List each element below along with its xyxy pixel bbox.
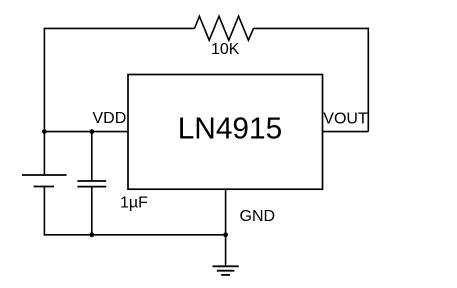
capacitor 1uF xyxy=(77,181,106,187)
svg-text:VOUT: VOUT xyxy=(323,110,368,127)
wire xyxy=(91,187,93,235)
wire xyxy=(225,189,227,266)
wire xyxy=(44,131,128,133)
wire xyxy=(43,28,45,175)
junction xyxy=(89,232,94,237)
svg-text:10K: 10K xyxy=(211,41,240,58)
svg-text:LN4915: LN4915 xyxy=(178,111,283,146)
wire xyxy=(91,132,93,181)
junction xyxy=(42,129,47,134)
resistor 10K xyxy=(195,16,254,40)
junction xyxy=(89,129,94,134)
wire xyxy=(254,27,369,29)
wire xyxy=(44,27,194,29)
battery xyxy=(22,175,67,187)
ground xyxy=(213,266,239,275)
IC LN4915 xyxy=(128,75,323,190)
junction xyxy=(223,232,228,237)
svg-text:VDD: VDD xyxy=(93,110,127,127)
wire xyxy=(43,187,45,236)
wire xyxy=(323,131,369,133)
svg-text:1µF: 1µF xyxy=(120,194,148,211)
wire xyxy=(44,234,225,236)
wire xyxy=(367,28,369,132)
svg-text:GND: GND xyxy=(240,208,276,225)
